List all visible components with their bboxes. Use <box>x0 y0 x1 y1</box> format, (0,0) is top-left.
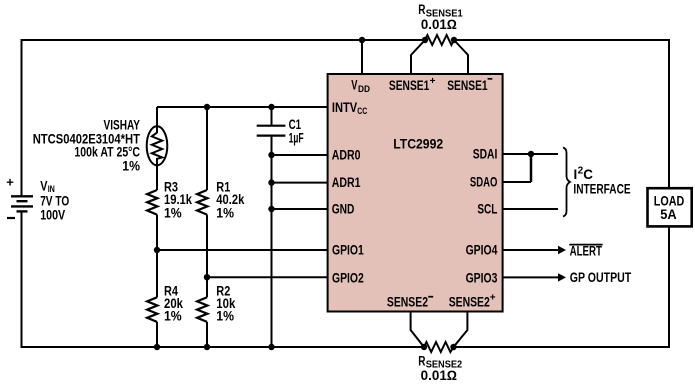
svg-text:1%: 1% <box>164 309 182 324</box>
svg-text:GND: GND <box>332 201 355 216</box>
svg-text:5A: 5A <box>660 207 677 222</box>
svg-text:V: V <box>351 78 357 93</box>
svg-text:100V: 100V <box>40 207 65 222</box>
svg-text:SCL: SCL <box>477 201 497 216</box>
svg-text:1µF: 1µF <box>289 131 304 146</box>
svg-text:GP OUTPUT: GP OUTPUT <box>570 270 632 285</box>
svg-text:GPIO2: GPIO2 <box>332 271 364 286</box>
svg-text:V: V <box>40 179 47 194</box>
svg-text:C: C <box>583 167 593 182</box>
svg-text:ADR1: ADR1 <box>332 175 361 190</box>
svg-text:R: R <box>418 353 425 368</box>
svg-text:SENSE2: SENSE2 <box>449 295 490 310</box>
svg-text:SDAO: SDAO <box>470 174 498 189</box>
svg-text:1%: 1% <box>216 309 234 324</box>
svg-text:+: + <box>430 76 436 87</box>
svg-text:SDAI: SDAI <box>473 147 498 162</box>
svg-text:1%: 1% <box>164 206 182 221</box>
svg-text:1%: 1% <box>122 159 140 174</box>
svg-text:INTERFACE: INTERFACE <box>573 182 630 197</box>
svg-text:0.01Ω: 0.01Ω <box>421 17 457 32</box>
svg-text:SENSE1: SENSE1 <box>447 78 488 93</box>
svg-text:R: R <box>418 2 425 17</box>
svg-text:LTC2992: LTC2992 <box>393 136 443 151</box>
svg-text:100k AT 25°C: 100k AT 25°C <box>74 144 140 159</box>
svg-text:+: + <box>490 292 496 303</box>
svg-text:SENSE1: SENSE1 <box>389 78 430 93</box>
svg-text:INTV: INTV <box>332 100 357 115</box>
svg-text:CC: CC <box>357 106 367 116</box>
svg-text:GPIO3: GPIO3 <box>466 271 498 286</box>
svg-text:C1: C1 <box>289 117 302 132</box>
svg-text:SENSE2: SENSE2 <box>387 295 428 310</box>
svg-text:1%: 1% <box>216 206 234 221</box>
svg-text:ALERT: ALERT <box>570 243 603 258</box>
svg-text:GPIO4: GPIO4 <box>466 243 498 258</box>
svg-text:ADR0: ADR0 <box>332 148 361 163</box>
svg-text:DD: DD <box>358 84 370 94</box>
svg-text:+: + <box>6 175 14 190</box>
svg-text:GPIO1: GPIO1 <box>332 243 364 258</box>
svg-text:VISHAY: VISHAY <box>104 117 141 132</box>
svg-text:0.01Ω: 0.01Ω <box>421 368 458 383</box>
